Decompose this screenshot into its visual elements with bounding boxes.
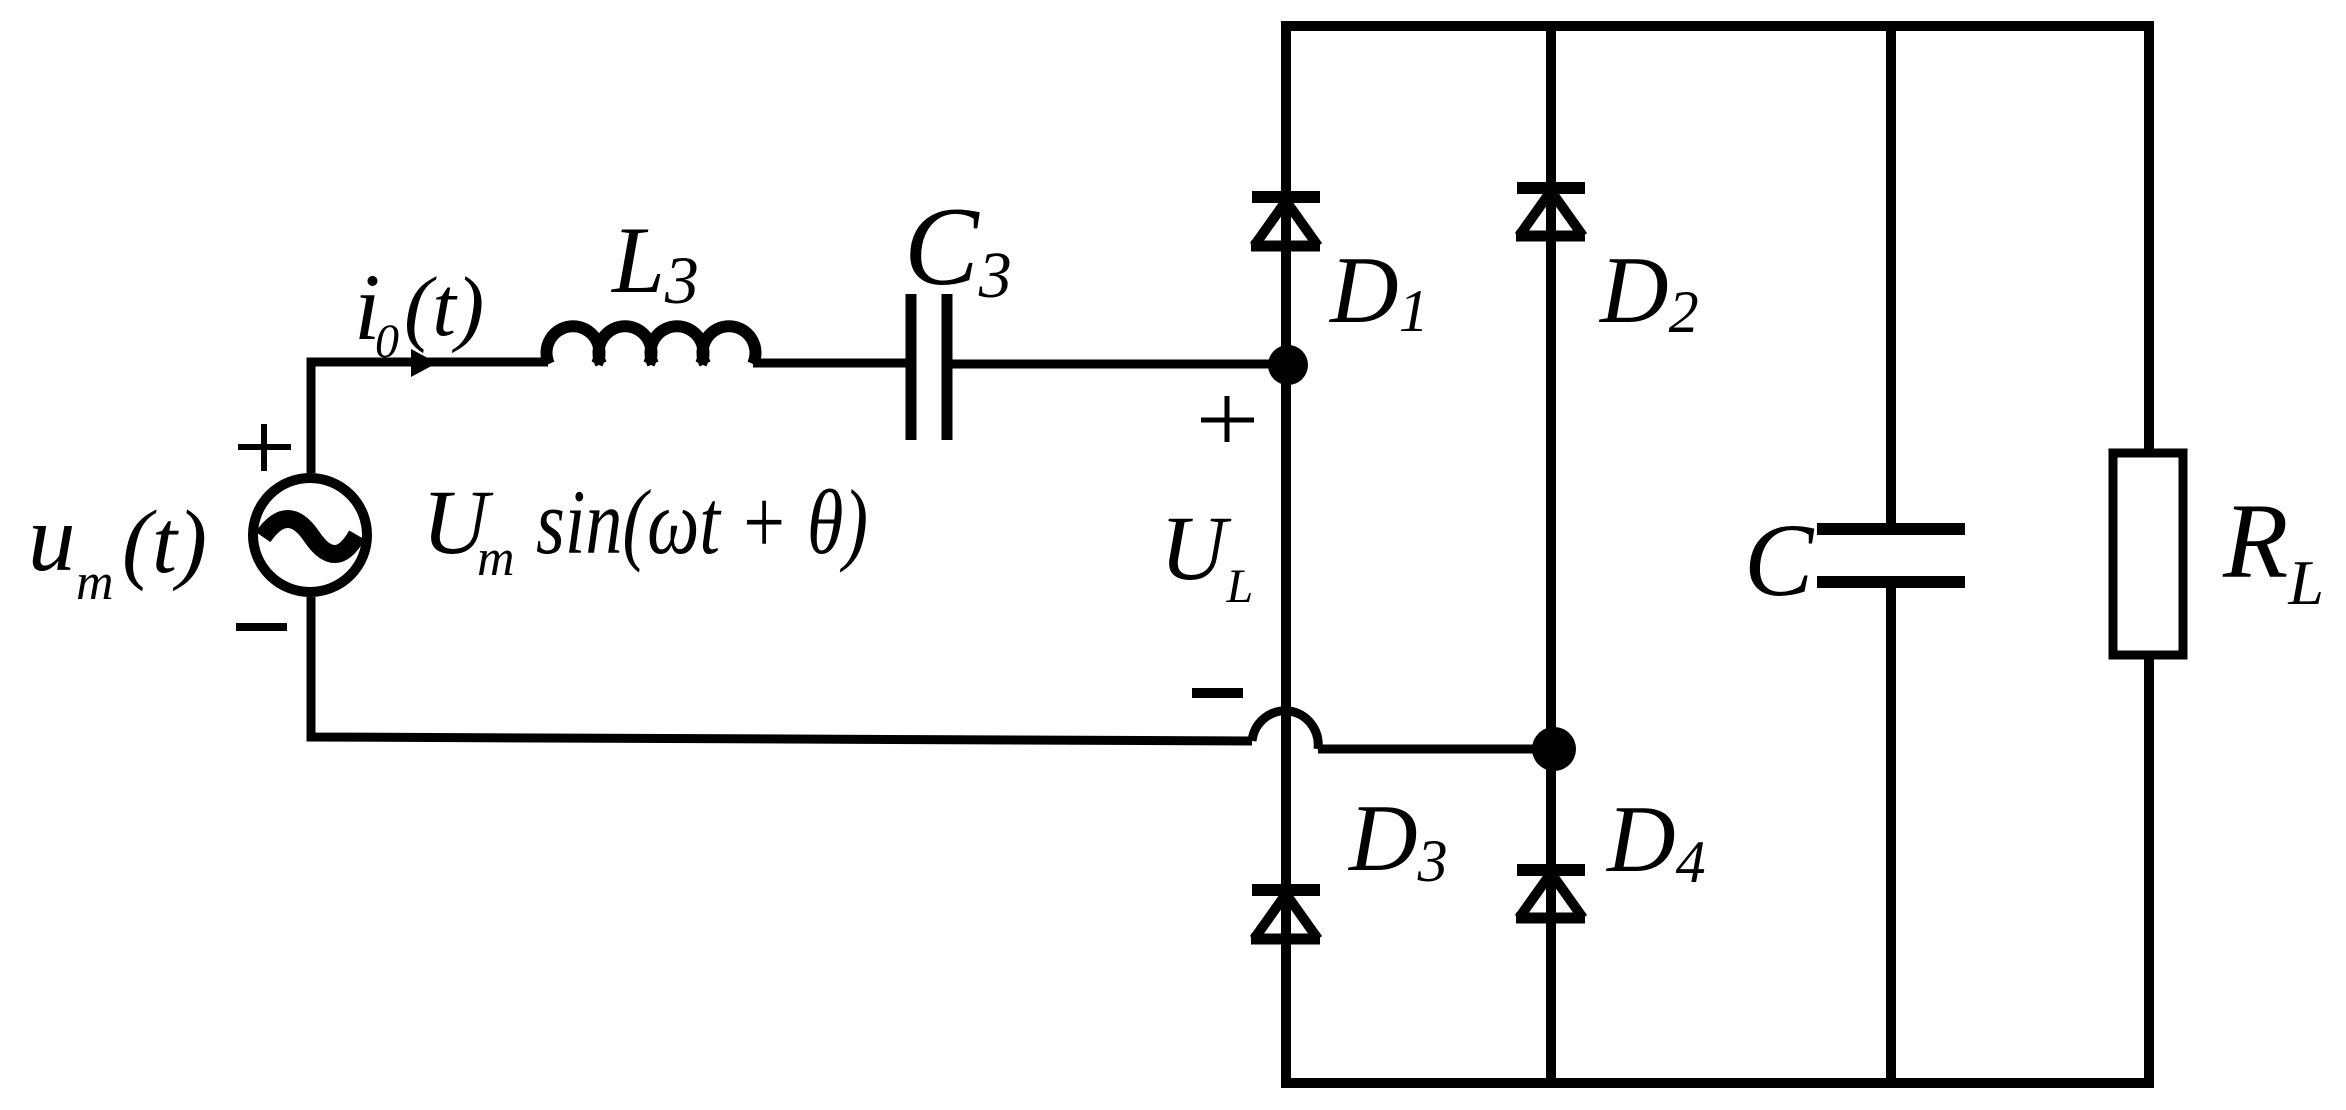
wire left bridge leg: [1281, 21, 1291, 1088]
label minus UL: [1192, 688, 1243, 698]
wire bottom rail: [1281, 1078, 2154, 1088]
node top junction dot: [1268, 345, 1308, 385]
capacitor C top plate: [1817, 523, 1965, 535]
svg-text:(t): (t): [404, 260, 484, 354]
capacitor C3 right plate: [942, 294, 953, 440]
svg-text:m: m: [477, 530, 515, 587]
wire hop to right leg: [1318, 745, 1552, 754]
svg-text:C: C: [1744, 503, 1815, 618]
svg-text:RL: RL: [2222, 483, 2324, 618]
diode D2: [1516, 188, 1585, 236]
svg-text:u: u: [28, 485, 76, 591]
svg-text:UL: UL: [1160, 497, 1253, 613]
svg-text:(t): (t): [122, 493, 207, 592]
label plus UL: [1201, 396, 1254, 442]
svg-text:L3: L3: [610, 207, 699, 318]
diode D3: [1251, 890, 1320, 939]
AC source sine symbol: [263, 519, 357, 554]
wire source top to inductor: [311, 362, 548, 473]
wire hop over left leg: [1252, 711, 1318, 749]
diode D1: [1251, 197, 1320, 246]
wire right bridge leg: [1546, 21, 1556, 1088]
wire C3 to bridge: [952, 360, 1286, 369]
svg-text:D1: D1: [1328, 237, 1429, 344]
svg-text:D3: D3: [1347, 785, 1448, 894]
svg-text:m: m: [76, 554, 114, 611]
wire resistor leg upper: [2144, 26, 2154, 453]
label minus source: [236, 623, 287, 631]
wire source bottom return: [311, 597, 1252, 741]
svg-text:D4: D4: [1605, 786, 1706, 895]
inductor L3: [547, 326, 756, 364]
wire capacitor C leg lower: [1886, 588, 1896, 1083]
capacitor C bottom plate: [1817, 576, 1965, 588]
diode D4: [1516, 870, 1585, 918]
wire capacitor C leg upper: [1886, 26, 1896, 523]
svg-text:0: 0: [375, 315, 399, 368]
label plus source: [238, 424, 291, 471]
capacitor C3 left plate: [906, 294, 917, 440]
AC source U1 circle: [253, 478, 367, 592]
resistor RL box: [2113, 453, 2183, 655]
node bottom junction dot: [1532, 727, 1576, 771]
wire resistor leg lower: [2144, 655, 2154, 1083]
wire top rail: [1281, 21, 2154, 31]
wire inductor to C3: [753, 359, 906, 368]
svg-text:C3: C3: [904, 185, 1012, 312]
arrow current direction: [411, 349, 437, 377]
svg-text:D2: D2: [1598, 237, 1699, 345]
svg-text:sin(ωt + θ): sin(ωt + θ): [536, 471, 868, 573]
